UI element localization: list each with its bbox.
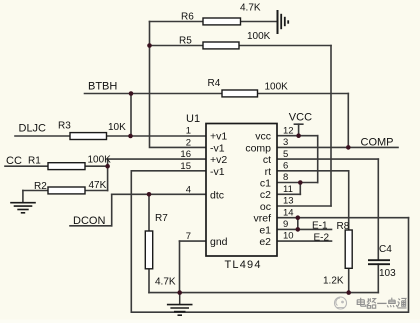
svg-text:13: 13 — [283, 196, 294, 207]
node R8 rail junction — [346, 290, 351, 295]
node R1/R2 junction — [105, 164, 110, 169]
wire R5 row — [150, 45, 332, 47]
resistor R5 100K — [179, 31, 271, 49]
wire dtc pin4 row — [112, 193, 206, 195]
svg-text:R5: R5 — [179, 36, 192, 47]
resistor R8 1.2K vertical — [323, 221, 352, 287]
wire vertical R5 to oc pin13 — [330, 46, 332, 207]
svg-text:TL494: TL494 — [225, 259, 262, 271]
svg-text:15: 15 — [180, 161, 191, 172]
wire BTBH down to pin1 — [130, 94, 132, 137]
node BTBH junction — [129, 91, 134, 96]
wire VCC riser — [298, 124, 300, 136]
pin numbers left — [180, 126, 191, 242]
IC left pin labels — [210, 131, 228, 248]
resistor R1 100K — [28, 155, 111, 170]
svg-text:9: 9 — [283, 219, 288, 230]
node c1/c2 junction — [298, 180, 303, 185]
wire vcc down to c1 — [317, 136, 319, 183]
watermark text lu — [367, 298, 376, 308]
wire DLJC / R3 / pin1 row — [15, 135, 206, 137]
wire R1/R2 tie vertical — [107, 159, 109, 190]
svg-text:12: 12 — [283, 125, 294, 136]
node R3/pin1 junction — [128, 134, 133, 139]
ground left signal ground under R2 — [10, 203, 36, 213]
wire R7 bottom stem — [148, 269, 150, 293]
wire c1 pin8 row — [277, 182, 318, 184]
svg-text:47K: 47K — [89, 180, 107, 191]
svg-text:+v2: +v2 — [210, 154, 227, 166]
svg-text:R6: R6 — [181, 12, 194, 23]
svg-text:BTBH: BTBH — [88, 80, 117, 92]
svg-text:vcc: vcc — [255, 131, 271, 143]
op-amp U1 TL494 IC box — [186, 113, 277, 271]
svg-text:c2: c2 — [260, 189, 271, 201]
wire pin15 down to bottom rail — [130, 171, 132, 312]
resistor R2 47K — [34, 180, 107, 194]
svg-text:16: 16 — [180, 149, 191, 160]
wire pin16 row — [108, 158, 206, 160]
wire DCON riser — [111, 194, 113, 226]
wire c2 pin11 row — [277, 193, 300, 195]
svg-text:+v1: +v1 — [210, 131, 227, 143]
svg-text:DLJC: DLJC — [19, 123, 47, 135]
svg-text:VCC: VCC — [289, 112, 312, 124]
wire e1 pin9 row E-1 — [277, 228, 332, 230]
svg-text:100K: 100K — [88, 155, 112, 166]
wire R2 left down to ground — [22, 191, 24, 203]
svg-text:R7: R7 — [155, 213, 168, 224]
svg-text:100K: 100K — [247, 31, 271, 42]
node VCC junction — [296, 133, 301, 138]
wire R8 bottom stem — [348, 268, 350, 292]
resistor R4 100K — [208, 78, 289, 97]
wire R4 down to COMP node — [347, 94, 349, 148]
wire R2 row — [23, 190, 108, 192]
svg-text:comp: comp — [245, 142, 271, 154]
svg-text:4: 4 — [186, 184, 191, 195]
svg-text:7: 7 — [186, 231, 191, 242]
svg-text:6: 6 — [283, 161, 288, 172]
wire vref pin14 row — [277, 217, 409, 219]
svg-text:R3: R3 — [58, 120, 71, 131]
wire vcc pin12 row — [277, 135, 318, 137]
resistor R7 4.7K vertical — [145, 213, 176, 288]
wire ct pin5 row — [277, 158, 378, 160]
wire pin15 row — [131, 170, 206, 172]
svg-text:2: 2 — [186, 137, 191, 148]
node COMP junction — [346, 145, 351, 150]
ground bottom earth — [167, 293, 193, 316]
svg-text:c1: c1 — [260, 178, 271, 190]
wire DCON row — [70, 225, 112, 227]
wire rt pin6 row — [277, 170, 349, 172]
svg-text:5: 5 — [283, 149, 288, 160]
node R5/pin2 junction — [147, 43, 152, 48]
wire gnd pin7 down to rail — [179, 241, 181, 293]
svg-text:-v1: -v1 — [210, 166, 225, 178]
svg-text:100K: 100K — [265, 82, 289, 93]
watermark text dian2 — [387, 298, 397, 308]
svg-text:11: 11 — [283, 184, 293, 195]
resistor R6 4.7K — [181, 3, 261, 25]
svg-text:1.2K: 1.2K — [323, 276, 344, 287]
node e1 junction — [296, 227, 301, 232]
svg-text:gnd: gnd — [210, 236, 228, 248]
svg-text:COMP: COMP — [361, 136, 394, 148]
watermark text dian — [357, 298, 366, 306]
svg-text:8: 8 — [283, 172, 288, 183]
wire ct down to C4 — [377, 159, 379, 260]
svg-text:4.7K: 4.7K — [155, 277, 176, 288]
svg-text:E-2: E-2 — [314, 232, 330, 243]
svg-text:e1: e1 — [259, 224, 271, 236]
svg-text:oc: oc — [260, 201, 271, 213]
svg-text:10: 10 — [283, 231, 294, 242]
wire R6 row top — [150, 21, 277, 23]
wire BTBH / R4 row — [85, 93, 349, 95]
node vref junction — [296, 215, 301, 220]
wire ground rail — [149, 292, 378, 294]
wire c1 down to c2 — [299, 183, 301, 195]
svg-text:4.7K: 4.7K — [240, 3, 261, 14]
pin numbers right — [283, 125, 294, 241]
ground GND top right sideways earth — [278, 10, 289, 34]
wire bottom rail vref loop — [131, 218, 408, 313]
wire left vertical R6/R5 to pin2 — [150, 22, 207, 148]
wire R7 top stem — [148, 194, 150, 231]
wire oc pin13 row — [277, 205, 331, 207]
svg-text:1: 1 — [186, 126, 191, 137]
svg-text:U1: U1 — [186, 113, 200, 125]
svg-text:103: 103 — [379, 268, 396, 279]
svg-text:C4: C4 — [379, 244, 392, 255]
svg-text:ct: ct — [263, 154, 271, 166]
IC right pin labels — [245, 131, 271, 248]
svg-text:DCON: DCON — [73, 215, 105, 227]
svg-text:vref: vref — [253, 213, 271, 225]
svg-text:R4: R4 — [208, 78, 221, 89]
svg-text:10K: 10K — [108, 122, 126, 133]
svg-text:CC: CC — [6, 155, 22, 167]
wire rt down to R8 — [348, 171, 350, 230]
svg-text:3: 3 — [283, 137, 288, 148]
svg-text:rt: rt — [265, 166, 271, 178]
svg-text:dtc: dtc — [210, 189, 224, 201]
resistor R3 10K — [58, 120, 126, 139]
wire e2 pin10 row E-2 — [277, 240, 332, 242]
wire comp pin3 row COMP net — [277, 146, 398, 148]
svg-text:14: 14 — [283, 207, 294, 218]
capacitor C4 103 — [368, 244, 396, 279]
svg-text:R1: R1 — [28, 156, 41, 167]
wire vref down to e1 — [297, 218, 299, 230]
watermark logo — [335, 297, 347, 309]
wire C4 bottom stem — [377, 264, 379, 292]
wire gnd pin7 row — [180, 240, 207, 242]
node earth rail junction — [177, 290, 182, 295]
svg-text:R8: R8 — [337, 221, 350, 232]
wire R1 row — [5, 165, 108, 167]
svg-text:E-1: E-1 — [312, 221, 328, 232]
svg-text:-v1: -v1 — [210, 142, 225, 154]
node R7/dtc junction — [147, 192, 152, 197]
svg-text:R2: R2 — [34, 181, 47, 192]
svg-text:e2: e2 — [259, 236, 271, 248]
watermark text yi — [377, 302, 386, 304]
watermark text tong — [397, 298, 406, 308]
node VCC power bar — [294, 123, 302, 125]
